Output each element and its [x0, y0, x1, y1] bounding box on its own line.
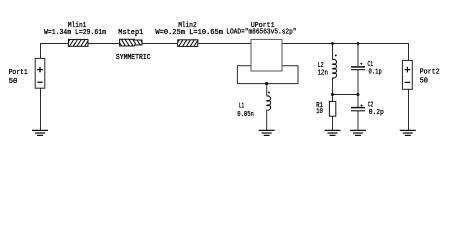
svg-text:Mstep1: Mstep1 [118, 29, 143, 37]
svg-text:50: 50 [420, 77, 428, 85]
svg-text:L1: L1 [239, 103, 244, 111]
svg-text:Port1: Port1 [9, 69, 28, 77]
svg-text:W=0.25m L=10.65m: W=0.25m L=10.65m [155, 29, 223, 37]
svg-text:10: 10 [316, 108, 323, 116]
svg-text:0.1p: 0.1p [369, 69, 382, 77]
svg-text:50: 50 [9, 78, 18, 86]
svg-text:Port2: Port2 [420, 68, 440, 76]
svg-text:SYMMETRIC: SYMMETRIC [116, 54, 151, 62]
svg-text:0.05n: 0.05n [237, 111, 254, 119]
svg-text:12n: 12n [318, 70, 328, 78]
svg-text:W=1.34m L=29.61m: W=1.34m L=29.61m [44, 29, 106, 37]
svg-text:0.2p: 0.2p [369, 109, 384, 117]
svg-text:LOAD="m86563v5.s2p": LOAD="m86563v5.s2p" [226, 28, 296, 36]
